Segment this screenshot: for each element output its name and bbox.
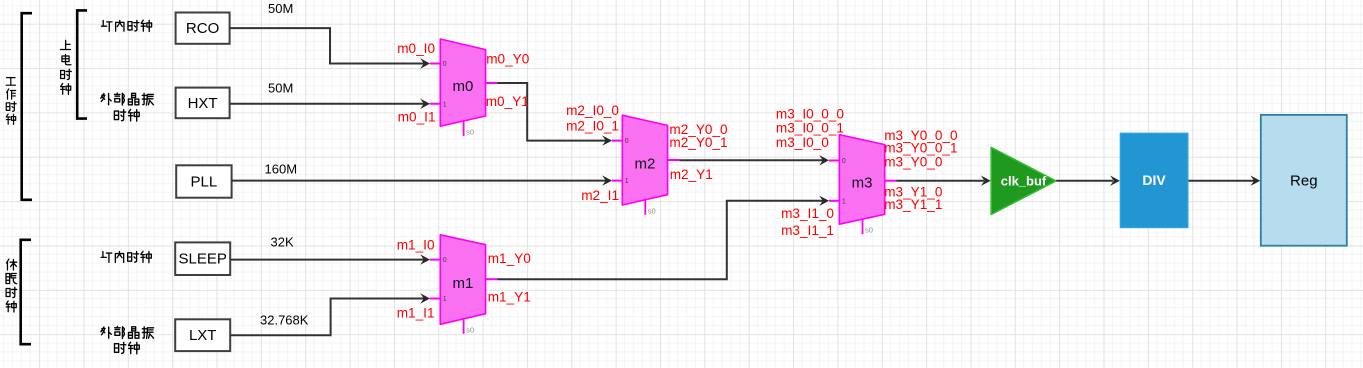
box PLL — [176, 165, 231, 197]
svg-text:1: 1 — [625, 178, 629, 185]
label m3_I0_0_1 — [776, 120, 844, 135]
box Reg — [1261, 115, 1347, 246]
svg-text:m3_Y1_1: m3_Y1_1 — [884, 197, 942, 212]
label m3_Y1_0 — [884, 185, 943, 200]
svg-text:1: 1 — [443, 296, 447, 303]
svg-text:m3: m3 — [852, 175, 873, 192]
svg-text:m1_Y1: m1_Y1 — [488, 290, 531, 305]
svg-text:s0: s0 — [648, 206, 656, 215]
box DIV — [1120, 133, 1187, 227]
label 片内时钟 (on-chip clock, bottom) — [101, 251, 151, 262]
label m1_I1 — [397, 306, 435, 321]
svg-text:m2: m2 — [634, 155, 655, 172]
wire m1 output to m3 input 1 — [498, 196, 830, 280]
mux m0 — [430, 39, 498, 137]
wire HXT to m0 input 1, label 50M — [230, 80, 430, 109]
label m2_I0_1 — [566, 119, 619, 134]
svg-text:s0: s0 — [865, 226, 873, 235]
mux m1 — [430, 235, 498, 334]
box HXT — [176, 88, 230, 119]
svg-text:LXT: LXT — [189, 327, 217, 344]
wire m0 output to m2 input 0 — [498, 83, 613, 146]
label m2_I0_0 — [566, 103, 619, 118]
label m3_I1_0 — [781, 206, 834, 221]
svg-text:0: 0 — [443, 257, 447, 264]
label m2_I1 — [581, 188, 619, 203]
wire DIV to Reg — [1188, 176, 1260, 186]
bracket 工作时钟 (working clock group) — [6, 13, 32, 200]
box SLEEP — [175, 242, 230, 275]
wire LXT to m1 input 1, label 32.768K — [230, 293, 430, 335]
label 片内时钟 (on-chip clock, top) — [101, 20, 151, 31]
svg-text:clk_buf: clk_buf — [1001, 173, 1047, 188]
svg-text:160M: 160M — [265, 162, 298, 177]
label m3_Y1_1 — [884, 197, 942, 212]
wire m3 output to clk_buf — [896, 176, 991, 186]
label m2_Y1 — [670, 167, 713, 182]
svg-text:m2_I1: m2_I1 — [581, 188, 619, 203]
buffer clk_buf — [991, 147, 1056, 214]
svg-text:32.768K: 32.768K — [260, 313, 309, 328]
label m0_I1 — [398, 109, 436, 124]
svg-text:m0_I1: m0_I1 — [398, 109, 436, 124]
svg-text:m3_I1_0: m3_I1_0 — [781, 206, 834, 221]
label m3_I0_0 — [776, 135, 829, 150]
label 外部晶振时钟 (external crystal clock, bottom) — [101, 326, 154, 353]
label m3_Y0_0_1 — [884, 140, 957, 155]
svg-text:m2_I0_0: m2_I0_0 — [566, 103, 619, 118]
svg-text:m0: m0 — [452, 78, 473, 95]
svg-text:m0_I0: m0_I0 — [397, 41, 435, 56]
box RCO — [176, 13, 230, 44]
label m3_I1_1 — [781, 223, 834, 238]
svg-text:DIV: DIV — [1142, 172, 1166, 188]
svg-text:32K: 32K — [271, 235, 294, 250]
label 外部晶振时钟 (external crystal clock, top) — [101, 93, 154, 121]
svg-text:m3_I1_1: m3_I1_1 — [781, 223, 834, 238]
wire PLL to m2 input 1, label 160M — [232, 162, 612, 186]
svg-text:m1_I1: m1_I1 — [397, 306, 435, 321]
bracket 上电时钟 (power-on clock group) — [60, 10, 87, 118]
svg-text:RCO: RCO — [186, 20, 219, 37]
svg-text:0: 0 — [625, 138, 629, 145]
label m0_Y0 — [486, 52, 530, 67]
mux m2 — [612, 115, 680, 215]
svg-text:s0: s0 — [466, 325, 474, 334]
svg-text:m3_Y0_0_1: m3_Y0_0_1 — [884, 140, 957, 155]
label m3_I0_0_0 — [776, 107, 844, 122]
svg-text:m3_I0_0_1: m3_I0_0_1 — [776, 120, 844, 135]
svg-text:1: 1 — [443, 101, 447, 108]
label m1_I0 — [397, 238, 435, 253]
svg-text:PLL: PLL — [191, 173, 218, 190]
label m0_I0 — [397, 41, 435, 56]
svg-text:m1_I0: m1_I0 — [397, 238, 435, 253]
svg-text:50M: 50M — [268, 80, 293, 95]
svg-text:50M: 50M — [268, 1, 293, 16]
svg-text:m2_I0_1: m2_I0_1 — [566, 119, 619, 134]
wire clk_buf to DIV — [1056, 176, 1120, 186]
svg-text:m1_Y0: m1_Y0 — [488, 251, 532, 266]
wire SLEEP to m1 input 0, label 32K — [230, 235, 430, 265]
svg-text:m2_Y1: m2_Y1 — [670, 167, 713, 182]
svg-text:m3_I0_0: m3_I0_0 — [776, 135, 829, 150]
svg-text:HXT: HXT — [188, 95, 218, 112]
svg-text:s0: s0 — [466, 128, 474, 137]
svg-text:m0_Y1: m0_Y1 — [486, 94, 529, 109]
label m1_Y0 — [488, 251, 532, 266]
svg-text:m0_Y0: m0_Y0 — [486, 52, 530, 67]
svg-text:m2_Y0_1: m2_Y0_1 — [669, 135, 727, 150]
bracket 休眠时钟 (sleep clock group) — [6, 240, 31, 344]
svg-text:0: 0 — [842, 158, 846, 165]
mux m3 — [829, 135, 897, 235]
label m3_Y0_0_0 — [884, 128, 958, 143]
svg-text:m3_Y0_0: m3_Y0_0 — [884, 155, 943, 170]
label m1_Y1 — [488, 290, 531, 305]
box LXT — [175, 319, 230, 351]
label m2_Y0_1 — [669, 135, 727, 150]
svg-text:SLEEP: SLEEP — [179, 251, 227, 268]
label m0_Y1 — [486, 94, 529, 109]
label m2_Y0_0 — [669, 122, 728, 137]
svg-text:m1: m1 — [452, 275, 473, 292]
label m3_Y0_0 — [884, 155, 943, 170]
wire m2 output to m3 input 0 — [680, 155, 830, 165]
svg-text:0: 0 — [443, 61, 447, 68]
svg-text:1: 1 — [842, 198, 846, 205]
wire RCO to m0 input 0, label 50M — [230, 1, 430, 69]
svg-text:Reg: Reg — [1290, 172, 1318, 189]
